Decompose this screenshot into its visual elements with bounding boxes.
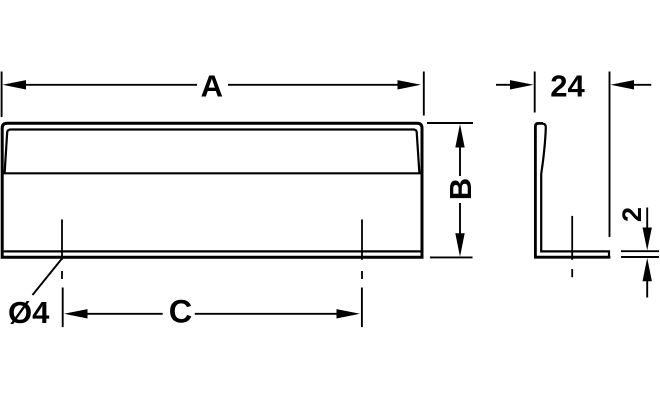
label B <box>443 178 478 200</box>
dimension C extension line right <box>361 288 363 328</box>
label 24 <box>550 68 585 103</box>
label C <box>169 293 192 329</box>
svg-text:C: C <box>169 293 192 329</box>
front view lip inner outline <box>5 130 420 174</box>
svg-text:Ø4: Ø4 <box>8 295 50 330</box>
dimension C extension line left <box>62 288 64 328</box>
dimension A extension line right <box>423 72 425 116</box>
dimension 2 arrow up <box>643 258 652 298</box>
dimension C line <box>85 313 339 315</box>
dimension B line <box>459 146 461 235</box>
label 2 <box>617 207 647 222</box>
front view flange inner line <box>4 250 421 252</box>
dimension 24 extension line right <box>609 72 611 238</box>
svg-text:2: 2 <box>617 207 647 222</box>
label diameter 4 <box>8 295 50 330</box>
dimension B arrow up <box>455 124 464 148</box>
dimension B extension line bottom <box>430 256 473 258</box>
dimension A line <box>24 84 399 86</box>
front view outer outline <box>2 123 422 257</box>
dimension 2 extension line bottom <box>621 256 659 258</box>
svg-text:A: A <box>201 68 223 103</box>
left hole centerline <box>61 219 63 279</box>
dimension 24 extension line left <box>534 72 536 113</box>
hole leader line <box>33 259 63 296</box>
dimension C arrow right <box>337 309 361 318</box>
dimension C arrow left <box>64 309 88 318</box>
side view bottom outer line <box>534 256 610 259</box>
dimension A arrow left <box>3 80 27 89</box>
label A <box>201 68 223 103</box>
dimension 2 extension line top <box>621 250 659 252</box>
right hole centerline <box>361 219 363 279</box>
dimension 24 left arrow <box>496 80 534 89</box>
svg-text:24: 24 <box>550 68 585 103</box>
svg-text:B: B <box>443 178 478 200</box>
dimension A extension line left <box>1 72 3 118</box>
side view hook inner edge and flange inner line <box>541 124 609 259</box>
dimension B extension line top <box>427 122 473 124</box>
side view profile outer edge <box>535 123 543 258</box>
dimension B arrow down <box>455 233 464 256</box>
side view hole centerline <box>571 216 573 277</box>
dimension A arrow right <box>398 80 422 89</box>
dimension 2 arrow down <box>643 208 652 251</box>
dimension 24 right arrow <box>611 80 652 89</box>
